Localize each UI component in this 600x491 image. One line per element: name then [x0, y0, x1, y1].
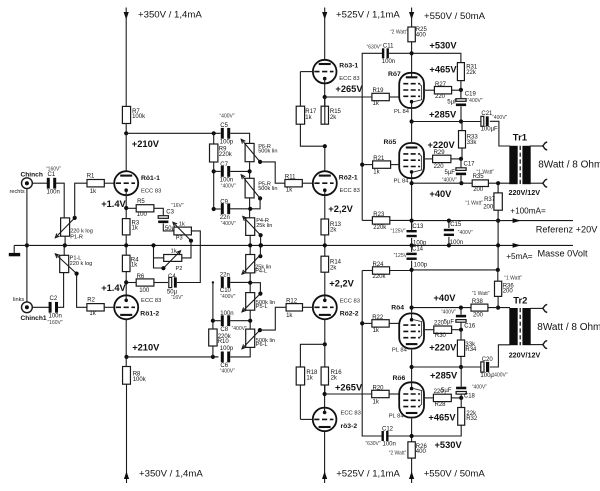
capacitor C7 [221, 166, 224, 177]
wire R20 to Ro6 g1 [389, 393, 399, 395]
wire C16 top stub [460, 308, 462, 315]
wire C1 to P1-R top [56, 183, 64, 218]
svg-text:R2: R2 [87, 298, 95, 304]
svg-text:+265V: +265V [335, 84, 363, 94]
node anode junction bottom [124, 355, 128, 359]
svg-text:C4: C4 [168, 274, 176, 280]
wire P5-R wiper to column [250, 198, 261, 208]
wire P1-R wiper to R1 [75, 183, 87, 218]
svg-text:R5: R5 [137, 199, 145, 205]
svg-text:100p: 100p [220, 346, 234, 352]
wire P5-L bottom stub [249, 310, 251, 329]
svg-text:“400V”: “400V” [472, 384, 487, 390]
svg-text:“1 Watt”: “1 Watt” [504, 275, 522, 281]
transformer Tr1 core [519, 146, 521, 184]
wire R17 top to Ro3-1 grid [299, 72, 301, 107]
wire P4-L wiper to Masse [259, 245, 261, 256]
svg-text:R20: R20 [373, 385, 385, 391]
wire R24 left corner [362, 270, 372, 272]
capacitor C11 [382, 48, 384, 58]
capacitor C16 [456, 315, 466, 318]
svg-text:+465V: +465V [428, 413, 456, 423]
svg-text:C18: C18 [464, 393, 476, 399]
wire Ro5 g2 to R29 [425, 158, 433, 160]
wire R33 bottom [461, 148, 463, 159]
svg-text:“400V”: “400V” [221, 221, 236, 227]
tube Ro1-1 [114, 171, 138, 195]
wire chinch to C1 [32, 182, 47, 184]
svg-text:ECC 83: ECC 83 [339, 76, 359, 82]
node Ro7 cathode junction [410, 119, 414, 123]
capacitor C5 [221, 128, 224, 139]
node R34 on 285 line [459, 365, 463, 369]
wire R13 to Masse [324, 235, 326, 246]
wire P5-L wiper to column [250, 283, 260, 294]
svg-text:100n: 100n [450, 240, 463, 246]
wire R32 to +530V corner [412, 425, 462, 436]
wire Ro4 cathode up [411, 308, 413, 313]
terminal speaker bottom Tr1 [543, 179, 548, 187]
wire R36 to Tr2 top [497, 296, 499, 307]
node P4-L wiper [258, 254, 262, 258]
connector Chinch1 links [22, 302, 33, 313]
power arrow +350V bottom [124, 471, 129, 479]
svg-text:220k: 220k [219, 152, 233, 158]
node P1-L top on Masse [63, 243, 67, 247]
svg-text:R30: R30 [435, 333, 447, 339]
svg-text:1k: 1k [89, 311, 96, 317]
svg-text:33k: 33k [467, 140, 478, 146]
svg-text:C14: C14 [412, 247, 424, 253]
wire R1 to Ro1-1 grid [104, 182, 115, 184]
potentiometer P4-L [246, 255, 255, 273]
svg-text:C5: C5 [220, 123, 228, 129]
capacitor C6 [221, 352, 224, 363]
wire ro3-2 anode down [324, 431, 326, 483]
svg-text:+220V: +220V [429, 343, 457, 353]
svg-text:+285V: +285V [429, 110, 457, 120]
transformer Tr2 secondary [522, 308, 530, 345]
wire C7 to P6-R bottom column [230, 170, 249, 172]
svg-text:+465V: +465V [429, 65, 457, 75]
wire Ro6 anode down [411, 418, 413, 441]
svg-text:+1.4V: +1.4V [101, 283, 126, 293]
node Ro3-1 cathode R19 [323, 95, 327, 99]
node C6 left branch [211, 355, 215, 359]
terminal speaker top Tr1 [543, 142, 548, 150]
wire R31 to junction [460, 81, 462, 99]
tube Ro2-2 [313, 295, 337, 319]
svg-text:P6-L: P6-L [256, 342, 268, 348]
svg-text:200: 200 [503, 289, 514, 295]
wire to R19 [325, 96, 372, 98]
svg-text:C3: C3 [166, 210, 174, 216]
wire C17 stub top [460, 159, 462, 168]
svg-text:R22: R22 [372, 315, 384, 321]
wire R18 top jog [300, 344, 324, 367]
wire P1-L wiper to R2 [77, 274, 87, 308]
node P4-L bottom junction [248, 281, 252, 285]
node Ro5 cathode +40V [410, 181, 414, 185]
svg-text:“400V”: “400V” [221, 183, 236, 189]
resistor R32 [458, 408, 465, 426]
tube Ro6 [399, 382, 424, 417]
capacitor C20 [481, 362, 484, 372]
wire P3 wiper down to P2 right [182, 241, 191, 258]
wire P1-L top to ground line [63, 245, 65, 255]
svg-text:1k: 1k [286, 188, 293, 194]
svg-text:1k: 1k [131, 263, 138, 269]
svg-text:+285V: +285V [430, 370, 458, 380]
wire R34 bottom stub [460, 356, 462, 367]
svg-text:220k: 220k [373, 225, 387, 231]
wire Ro4 g2 to R30 [425, 329, 434, 331]
svg-text:8Watt / 8 Ohm: 8Watt / 8 Ohm [538, 159, 600, 170]
wire R15 to cathode node [324, 106, 326, 124]
svg-text:PL 84: PL 84 [394, 109, 410, 115]
svg-text:Rö3-1: Rö3-1 [339, 63, 358, 70]
svg-text:220k: 220k [373, 274, 387, 280]
arrow referenz [513, 218, 521, 223]
svg-text:“400V”: “400V” [493, 372, 508, 378]
node Ro4 anode Ro6 cathode [410, 365, 414, 369]
node C10 left corner [212, 281, 214, 283]
svg-text:+550V / 50mA: +550V / 50mA [424, 11, 486, 22]
svg-text:2k: 2k [330, 115, 337, 121]
wire Masse to R4 [125, 245, 127, 255]
svg-text:1k: 1k [171, 249, 177, 255]
node referenz start [410, 219, 414, 223]
svg-text:“160V”: “160V” [48, 320, 63, 326]
node P6-R bottom C7 junction [248, 169, 252, 173]
potentiometer P4-R [246, 218, 255, 236]
svg-text:R34: R34 [465, 347, 477, 353]
wire C15 top stub [448, 221, 450, 228]
svg-text:+550V / 50mA: +550V / 50mA [424, 469, 486, 480]
svg-text:P2: P2 [176, 266, 183, 272]
wire R3 to Masse [125, 235, 127, 246]
svg-text:“400V”: “400V” [220, 294, 235, 300]
svg-text:R27: R27 [435, 82, 447, 88]
wire +285V bottom line [412, 366, 481, 368]
capacitor C8 [221, 315, 224, 326]
wire C18 top stub [460, 367, 462, 387]
svg-text:100: 100 [137, 212, 148, 218]
svg-text:links: links [13, 297, 24, 303]
transformer Tr2 core [519, 308, 521, 345]
node R3 bottom on Masse [124, 243, 128, 247]
transformer Tr1 secondary [522, 146, 530, 184]
wire C19 to +285V line [460, 106, 462, 121]
wire Ro5 anode up [411, 122, 413, 143]
svg-text:220 k log: 220 k log [70, 261, 93, 267]
node C16 R30 R34 junction [459, 328, 463, 332]
node C15 on referenz [447, 219, 451, 223]
node Tr2 top junction [496, 306, 500, 310]
wire R21 feed [362, 164, 372, 166]
wire R21 to Ro5 g1 [391, 164, 399, 166]
node R22 branch [360, 321, 364, 325]
svg-text:PL 84: PL 84 [392, 348, 408, 354]
wire Ro6 g2 to R28 [425, 397, 433, 399]
wire P4-R wiper to Masse [260, 235, 262, 245]
transformer Tr1 primary [509, 146, 517, 184]
svg-text:C12: C12 [382, 427, 394, 433]
svg-text:ECC 83: ECC 83 [340, 188, 360, 194]
wire referenz line [412, 220, 573, 222]
resistor R33 [459, 131, 466, 148]
svg-text:+5mA=: +5mA= [506, 252, 533, 261]
svg-text:100p: 100p [414, 262, 428, 268]
wire P6-R column mid [249, 162, 251, 179]
svg-text:100n: 100n [383, 441, 396, 447]
svg-text:P1-R: P1-R [70, 234, 83, 240]
wire Ro7 cathode down [411, 109, 413, 122]
resistor R30 [434, 326, 452, 333]
svg-text:Rö2-1: Rö2-1 [339, 175, 358, 182]
svg-text:+2,2V: +2,2V [328, 204, 353, 214]
svg-text:200: 200 [473, 187, 484, 193]
node R9 top branch [212, 131, 216, 135]
svg-text:Chinch1: Chinch1 [21, 315, 47, 322]
svg-text:ECC 83: ECC 83 [340, 299, 360, 305]
svg-text:Rö2-2: Rö2-2 [340, 310, 359, 317]
wire R34 top stub [460, 330, 462, 340]
resistor R10 [209, 329, 217, 346]
svg-text:“400V”: “400V” [458, 230, 473, 236]
resistor R28 [433, 394, 451, 401]
wire Ro5 cathode down [411, 179, 413, 230]
svg-text:P5-L: P5-L [256, 304, 268, 310]
svg-text:Rö1-2: Rö1-2 [140, 310, 159, 317]
resistor R24 [373, 267, 390, 274]
svg-text:+100mA=: +100mA= [510, 206, 546, 215]
wire C11 left to column [362, 53, 382, 220]
svg-text:“2 Watt”: “2 Watt” [389, 450, 407, 456]
wire R37 to referenz line [497, 210, 499, 245]
wire Tr1 sec bottom [530, 182, 542, 184]
svg-text:1k: 1k [90, 189, 97, 195]
svg-text:+530V: +530V [429, 41, 457, 51]
potentiometer P1-L [60, 255, 69, 272]
svg-text:C2: C2 [50, 296, 58, 302]
wire P4-L bottom to junction [249, 273, 251, 293]
node P1-L wiper [75, 272, 79, 276]
wire P1-R bottom to ground line [64, 236, 66, 245]
svg-text:Rö4: Rö4 [391, 305, 404, 312]
svg-text:“630V”: “630V” [366, 441, 381, 447]
wire P2 ground stub [154, 245, 164, 268]
svg-text:“630V”: “630V” [367, 44, 382, 50]
node P5-R wiper [258, 196, 262, 200]
svg-text:Rö7: Rö7 [388, 71, 401, 78]
svg-text:100n: 100n [49, 313, 62, 319]
wire bottom coupling line y=357 [127, 356, 219, 358]
resistor R38 [471, 304, 488, 311]
wire P4-L top to Masse [249, 245, 251, 254]
wire +350V top rail [125, 8, 127, 107]
tube Ro5 [399, 143, 424, 178]
wire P6-L wiper to R12 [260, 307, 286, 330]
wire Masse to R14 [324, 245, 326, 256]
wire Masse line [14, 244, 573, 246]
wire C5 to P6-R top [230, 133, 249, 143]
svg-text:400: 400 [416, 449, 427, 455]
tube Ro7 [399, 73, 424, 108]
svg-text:Chinch: Chinch [21, 172, 43, 179]
wire +40V bottom line [412, 307, 471, 309]
svg-text:R12: R12 [286, 299, 298, 305]
wire R37 top stub [497, 183, 499, 193]
potentiometer P1-R [61, 218, 70, 236]
svg-text:Referenz +20V: Referenz +20V [536, 224, 598, 234]
node Ro4 cathode +40V [410, 306, 414, 310]
svg-text:100µF: 100µF [481, 126, 498, 132]
svg-text:+1.4V: +1.4V [101, 199, 126, 209]
wire top coupling line y=133 [126, 132, 221, 134]
svg-text:“16V”: “16V” [171, 203, 184, 209]
svg-text:200: 200 [473, 313, 484, 319]
resistor R8 [123, 367, 131, 385]
node chinch ground on Masse [25, 243, 29, 247]
svg-text:2k: 2k [330, 265, 337, 271]
wire C21 to Tr1 primary top [490, 121, 510, 146]
svg-text:“400V”: “400V” [220, 113, 235, 119]
svg-text:rechts: rechts [10, 189, 25, 195]
svg-text:Rö1-1: Rö1-1 [141, 175, 160, 182]
wire cathode to R5 [126, 207, 136, 209]
svg-text:“1 Watt”: “1 Watt” [472, 291, 490, 297]
resistor R34 [457, 340, 464, 356]
resistor R19 [372, 93, 389, 100]
svg-text:“400V”: “400V” [232, 326, 247, 332]
wire R23 right to referenz line [390, 219, 412, 221]
capacitor C12 [382, 431, 384, 441]
resistor R3 [122, 219, 130, 235]
trimmer P2 [164, 255, 182, 262]
wire Ro1-2 anode down [125, 319, 127, 367]
svg-text:Tr2: Tr2 [513, 296, 527, 307]
resistor R18 [296, 367, 304, 385]
node P2 stub on Masse [151, 243, 155, 247]
svg-text:1k: 1k [132, 226, 139, 232]
wire R12 to Ro2-2 grid [303, 306, 314, 308]
capacitor C9 [221, 203, 224, 214]
wire C3 to P3 left [163, 223, 174, 231]
resistor R27 [434, 87, 451, 94]
svg-text:+220V: +220V [428, 140, 456, 150]
tube Ro2-1 [313, 171, 337, 195]
svg-text:1k: 1k [373, 169, 380, 175]
resistor R7 [122, 106, 130, 123]
arrow masse [513, 243, 521, 248]
node C9 left [212, 207, 216, 211]
wire R7 to anode node [125, 124, 127, 134]
wire C14 top stub [411, 245, 413, 252]
wire R14 to Ro2-2 cathode [324, 272, 326, 296]
svg-text:R21: R21 [373, 156, 385, 162]
svg-text:R32: R32 [466, 416, 478, 422]
resistor R13 [321, 219, 329, 235]
power arrow +350V top [124, 12, 129, 20]
svg-text:C17: C17 [464, 161, 476, 167]
wire C9 to P4-R column [230, 208, 250, 210]
wire Ro2-1 cathode down [324, 195, 326, 219]
svg-text:“2 Watt”: “2 Watt” [390, 30, 408, 36]
svg-text:220V/12V: 220V/12V [509, 351, 541, 360]
potentiometer P5-R [245, 178, 254, 198]
wire P3 right to C4 right [177, 231, 200, 283]
svg-text:+525V / 1,1mA: +525V / 1,1mA [336, 469, 400, 480]
wire Ro7 g2 to R27 [425, 89, 434, 91]
wire Ro3-1 cathode down [324, 84, 326, 107]
svg-text:R37: R37 [484, 197, 496, 203]
wire R8 to +350V bottom [126, 384, 128, 483]
wire C12 left to column [362, 271, 381, 437]
svg-text:220: 220 [435, 94, 446, 100]
node P6-R wiper [258, 160, 262, 164]
resistor R9 [210, 144, 218, 162]
capacitor C13 [407, 230, 417, 232]
wire C7 stub [214, 170, 221, 172]
potentiometer P6-R [245, 143, 254, 161]
wire ro3-2 grid ext [300, 418, 313, 420]
node C17 on +40V line [459, 181, 463, 185]
wire C18 bottom stub [460, 394, 462, 407]
svg-text:1k: 1k [373, 328, 380, 334]
svg-text:100k: 100k [133, 377, 147, 383]
node R28 C18 R32 junction [459, 396, 463, 400]
wire Ro1-1 cathode down [125, 195, 127, 219]
resistor R26 [408, 442, 415, 458]
resistor R1 [87, 180, 104, 187]
terminal speaker bottom Tr2 [543, 341, 548, 349]
wire C6 to P6-L bottom [230, 347, 250, 357]
wire R22 to Ro4 g1 [389, 322, 398, 324]
wire cathode to R6 [126, 282, 136, 284]
svg-text:rö3-2: rö3-2 [341, 423, 358, 430]
wire R10 column [212, 282, 214, 357]
wire ro3-2 cathode up [324, 385, 326, 408]
svg-text:5µF: 5µF [447, 99, 458, 105]
svg-text:+2,2V: +2,2V [329, 278, 354, 288]
svg-text:C15: C15 [450, 222, 462, 228]
node cathode +1.4V top [124, 206, 128, 210]
wire R38 to Tr2 [488, 307, 510, 309]
wire R18 bottom to ro3-2 grid [299, 385, 301, 419]
node C15 on Masse [447, 243, 451, 247]
ground symbol [13, 245, 15, 253]
node ro3-2 cathode R20 [323, 392, 327, 396]
svg-text:220V/12V: 220V/12V [509, 188, 541, 197]
resistor R29 [433, 155, 451, 162]
wire C20 to Tr2 primary bottom [490, 345, 510, 367]
node C13 on Masse [410, 243, 414, 247]
wire R11 to Ro2-1 grid [302, 182, 313, 184]
svg-text:R29: R29 [434, 150, 446, 156]
node P1-R wiper [73, 216, 77, 220]
wire Tr2 sec top [530, 307, 542, 309]
potentiometer P6-L [246, 329, 255, 347]
svg-text:2k: 2k [331, 375, 338, 381]
svg-text:C8: C8 [220, 327, 228, 333]
svg-text:PL 84: PL 84 [389, 413, 405, 419]
wire Ro2-1 anode up [324, 146, 326, 172]
tube Ro4 [399, 313, 424, 348]
svg-text:100n: 100n [47, 190, 60, 196]
svg-text:200: 200 [483, 205, 494, 211]
node P4-L wiper on Masse [259, 243, 263, 247]
